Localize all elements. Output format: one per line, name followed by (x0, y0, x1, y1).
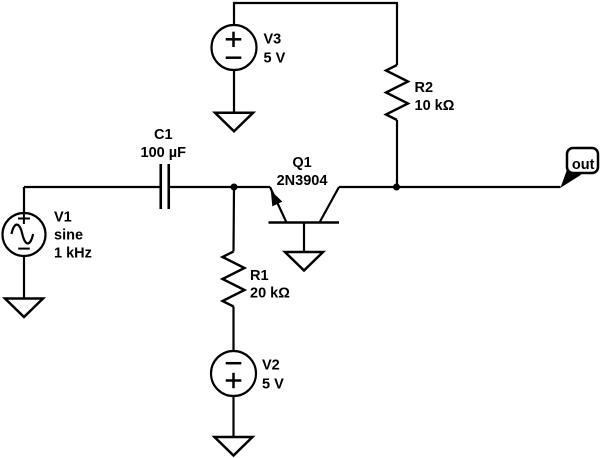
svg-text:R1: R1 (250, 268, 269, 284)
svg-text:20 kΩ: 20 kΩ (250, 286, 290, 302)
svg-text:R2: R2 (415, 80, 434, 96)
svg-text:100 µF: 100 µF (141, 145, 187, 161)
svg-text:sine: sine (54, 228, 83, 244)
svg-text:C1: C1 (154, 127, 173, 143)
svg-text:5 V: 5 V (264, 51, 286, 67)
svg-text:2N3904: 2N3904 (277, 173, 328, 189)
svg-text:V1: V1 (54, 210, 72, 226)
svg-text:10 kΩ: 10 kΩ (415, 98, 455, 114)
svg-text:Q1: Q1 (292, 155, 311, 171)
svg-text:5 V: 5 V (262, 377, 284, 393)
svg-text:1 kHz: 1 kHz (54, 246, 92, 262)
svg-text:V3: V3 (264, 32, 282, 48)
svg-text:out: out (572, 157, 595, 173)
svg-text:V2: V2 (262, 358, 280, 374)
